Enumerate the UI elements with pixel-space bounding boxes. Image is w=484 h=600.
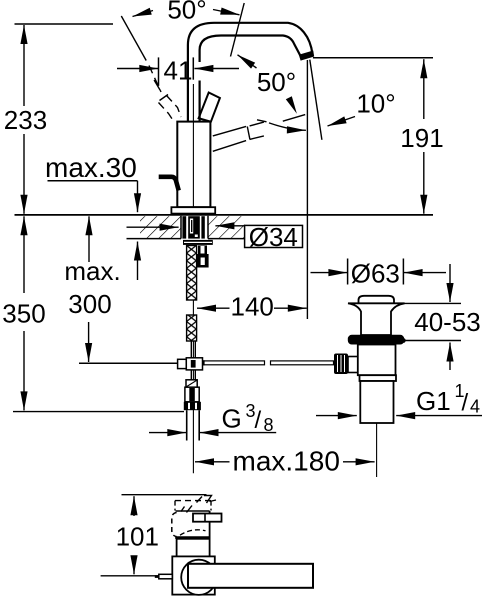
svg-text:300: 300 [68, 289, 111, 319]
svg-text:max.30: max.30 [45, 152, 137, 183]
svg-text:350: 350 [2, 299, 45, 329]
svg-text:50°: 50° [167, 0, 206, 25]
svg-text:G1: G1 [416, 386, 451, 416]
svg-text:101: 101 [116, 521, 159, 551]
svg-text:/: / [462, 390, 469, 417]
svg-text:10°: 10° [356, 89, 395, 119]
svg-text:Ø63: Ø63 [351, 258, 400, 288]
svg-text:max.: max. [64, 256, 120, 286]
svg-text:max.180: max.180 [233, 446, 340, 477]
svg-text:40-53: 40-53 [414, 307, 481, 337]
svg-text:4: 4 [470, 397, 480, 417]
svg-text:140: 140 [231, 292, 274, 322]
svg-text:/: / [255, 407, 262, 434]
svg-text:50°: 50° [257, 67, 296, 97]
svg-text:233: 233 [4, 105, 47, 135]
svg-text:G: G [222, 404, 242, 434]
svg-text:Ø34: Ø34 [249, 222, 298, 252]
svg-text:191: 191 [400, 123, 443, 153]
